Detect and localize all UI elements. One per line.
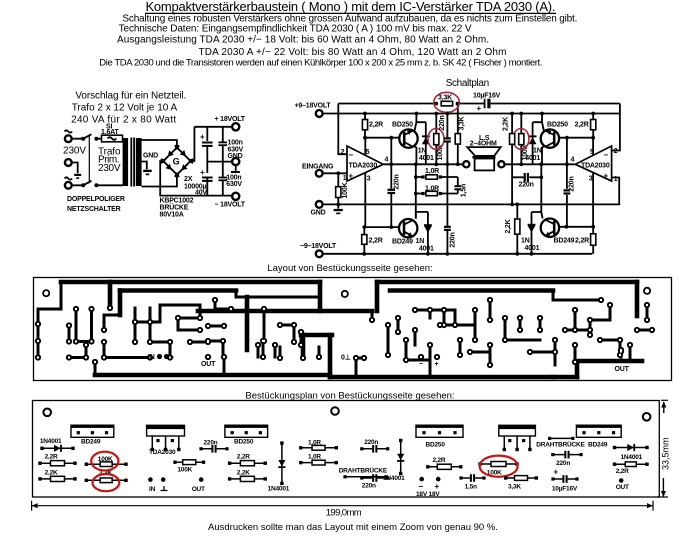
svg-text:2,2R: 2,2R xyxy=(237,454,250,461)
svg-text:199,0mm: 199,0mm xyxy=(326,508,362,519)
svg-text:BD249: BD249 xyxy=(588,441,608,448)
svg-text:1N4001: 1N4001 xyxy=(40,438,62,445)
svg-text:33,5mm: 33,5mm xyxy=(660,437,670,470)
svg-text:OUT: OUT xyxy=(616,484,629,491)
svg-text:3,3K: 3,3K xyxy=(438,94,452,101)
svg-text:Ausdrucken sollte man das Layo: Ausdrucken sollte man das Layout mit ein… xyxy=(208,522,498,533)
svg-text:−: − xyxy=(604,151,609,160)
svg-text:− 18VOLT: − 18VOLT xyxy=(215,202,246,209)
svg-text:−: − xyxy=(419,361,423,368)
svg-text:40V: 40V xyxy=(195,190,207,197)
svg-text:4001: 4001 xyxy=(419,246,434,253)
svg-text:220n: 220n xyxy=(556,460,570,467)
svg-text:BD250: BD250 xyxy=(547,121,568,128)
svg-text:−: − xyxy=(349,151,354,160)
svg-text:+: + xyxy=(435,482,440,491)
svg-text:−: − xyxy=(418,482,423,491)
svg-text:1N4001: 1N4001 xyxy=(621,454,643,461)
svg-text:630V: 630V xyxy=(226,181,242,188)
svg-text:BD249: BD249 xyxy=(81,438,101,445)
svg-text:OUT: OUT xyxy=(615,366,630,373)
svg-text:IN: IN xyxy=(149,486,156,493)
svg-text:+: + xyxy=(435,361,439,368)
svg-text:230V: 230V xyxy=(98,163,121,174)
svg-text:Layout von Bestückungsseite ge: Layout von Bestückungsseite gesehen: xyxy=(267,263,432,274)
svg-text:2: 2 xyxy=(614,148,618,155)
svg-text:Kompaktverstärkerbaustein ( Mo: Kompaktverstärkerbaustein ( Mono ) mit d… xyxy=(146,0,556,14)
svg-text:1N: 1N xyxy=(418,148,427,155)
svg-text:1N: 1N xyxy=(521,238,530,245)
svg-text:2,2R: 2,2R xyxy=(369,238,383,245)
svg-text:1N: 1N xyxy=(533,148,542,155)
svg-text:220n: 220n xyxy=(519,182,534,189)
svg-text:DRAHTBRÜCKE: DRAHTBRÜCKE xyxy=(536,439,585,448)
svg-text:220n: 220n xyxy=(362,483,376,490)
svg-text:Die TDA 2030 und die Transisto: Die TDA 2030 und die Transistoren werden… xyxy=(99,57,542,68)
svg-text:+: + xyxy=(604,172,609,181)
svg-text:TDA 2030 A +/− 22 Volt: bis 80: TDA 2030 A +/− 22 Volt: bis 80 Watt an 4… xyxy=(199,47,507,58)
svg-text:4001: 4001 xyxy=(419,155,434,162)
svg-text:3: 3 xyxy=(367,176,371,183)
svg-text:+: + xyxy=(477,104,482,113)
svg-text:220n: 220n xyxy=(450,232,457,247)
svg-text:2,2R: 2,2R xyxy=(575,122,589,129)
svg-text:1N4001: 1N4001 xyxy=(268,486,290,493)
svg-text:Schaltplan: Schaltplan xyxy=(446,78,490,89)
svg-text:+: + xyxy=(200,133,205,142)
svg-text:OUT: OUT xyxy=(192,486,205,493)
svg-text:G: G xyxy=(173,156,180,166)
svg-text:0⊥: 0⊥ xyxy=(341,354,351,362)
svg-text:240 VA für 2 x 80 Watt: 240 VA für 2 x 80 Watt xyxy=(71,114,176,125)
svg-text:3,3K: 3,3K xyxy=(508,484,521,491)
svg-text:2,2R: 2,2R xyxy=(616,468,629,475)
svg-text:−9–18VOLT: −9–18VOLT xyxy=(300,243,337,250)
svg-text:2,2R: 2,2R xyxy=(45,454,58,461)
svg-text:Technische Daten: Eingangsempf: Technische Daten: Eingangsempfindlichkei… xyxy=(119,24,472,35)
svg-text:1,0R: 1,0R xyxy=(425,168,439,175)
svg-text:2X: 2X xyxy=(184,176,193,183)
svg-text:BD250: BD250 xyxy=(426,441,446,448)
svg-text:DRAHTBRÜCKE: DRAHTBRÜCKE xyxy=(339,465,388,474)
svg-text:DOPPELPOLIGER: DOPPELPOLIGER xyxy=(67,196,125,203)
svg-text:2,2K: 2,2K xyxy=(505,219,512,233)
svg-text:+ 18VOLT: + 18VOLT xyxy=(215,116,246,123)
svg-text:220n: 220n xyxy=(568,176,575,191)
svg-text:5: 5 xyxy=(366,149,370,156)
svg-text:KBPC1002: KBPC1002 xyxy=(160,198,194,205)
svg-text:4: 4 xyxy=(571,157,575,164)
svg-text:+: + xyxy=(349,172,354,181)
svg-text:Ausgangsleistung TDA 2030 +/: Ausgangsleistung TDA 2030 +/− 18 Volt: b… xyxy=(117,34,489,45)
svg-text:TDA2030: TDA2030 xyxy=(349,162,378,169)
svg-text:IN: IN xyxy=(148,354,155,361)
svg-text:−: − xyxy=(170,355,174,362)
svg-text:1N4001: 1N4001 xyxy=(383,475,405,482)
svg-text:BD249: BD249 xyxy=(554,238,575,245)
svg-text:TDA2030: TDA2030 xyxy=(149,449,176,456)
svg-text:BD250: BD250 xyxy=(392,121,413,128)
svg-text:NETZSCHALTER: NETZSCHALTER xyxy=(67,206,121,213)
svg-text:BD250: BD250 xyxy=(234,438,254,445)
svg-text:18V 18V: 18V 18V xyxy=(416,491,440,498)
svg-text:220n: 220n xyxy=(439,115,446,130)
svg-text:+: + xyxy=(554,468,559,477)
svg-text:3,3K: 3,3K xyxy=(458,116,465,130)
svg-text:1,5n: 1,5n xyxy=(465,484,477,491)
svg-text:Trafo 2 x 12 Volt je 10 A: Trafo 2 x 12 Volt je 10 A xyxy=(72,103,178,114)
svg-text:1: 1 xyxy=(343,175,347,182)
svg-text:220n: 220n xyxy=(393,174,400,189)
svg-text:2,2R: 2,2R xyxy=(433,457,446,464)
svg-text:+: + xyxy=(200,168,205,177)
svg-text:+9–18VOLT: +9–18VOLT xyxy=(295,103,332,110)
svg-text:TDA2030: TDA2030 xyxy=(581,162,610,169)
svg-text:4: 4 xyxy=(385,157,389,164)
svg-text:Vorschlag für ein Netzteil.: Vorschlag für ein Netzteil. xyxy=(75,91,186,102)
svg-text:80V10A: 80V10A xyxy=(160,212,184,219)
svg-text:1,5n: 1,5n xyxy=(460,184,467,197)
svg-text:GND: GND xyxy=(143,153,158,160)
svg-text:3: 3 xyxy=(589,176,593,183)
svg-text:100K: 100K xyxy=(342,182,349,198)
svg-text:1: 1 xyxy=(614,176,618,183)
svg-text:OUT: OUT xyxy=(201,361,216,368)
svg-text:2,2K: 2,2K xyxy=(502,117,509,131)
svg-text:100K: 100K xyxy=(177,466,192,473)
svg-text:4001: 4001 xyxy=(525,245,540,252)
svg-text:BD249: BD249 xyxy=(392,239,413,246)
svg-text:10µF16V: 10µF16V xyxy=(473,93,501,100)
svg-text:BRÜCKE: BRÜCKE xyxy=(160,203,189,212)
svg-text:10µF16V: 10µF16V xyxy=(552,486,578,493)
svg-text:2,2R: 2,2R xyxy=(369,122,383,129)
svg-text:230V: 230V xyxy=(63,146,86,157)
svg-text:GND: GND xyxy=(311,210,326,217)
svg-text:2: 2 xyxy=(341,149,345,156)
svg-text:1N: 1N xyxy=(416,238,425,245)
svg-text:2,2R: 2,2R xyxy=(575,238,589,245)
svg-text:100n: 100n xyxy=(228,140,243,147)
